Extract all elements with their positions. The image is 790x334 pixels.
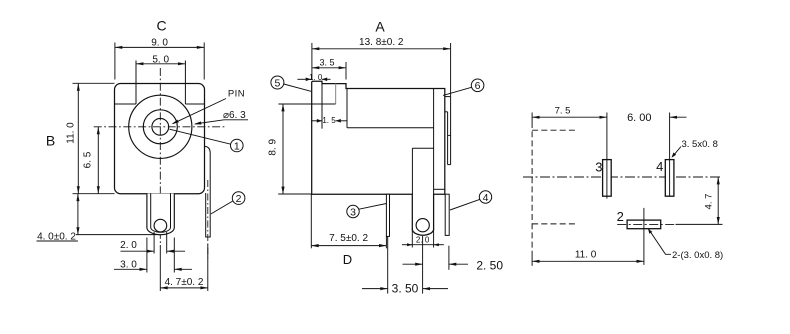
dimension 6.5 vertical — [97, 127, 99, 194]
pcb layout: pad 4 slot — [665, 160, 674, 197]
svg-text:5. 0: 5. 0 — [152, 55, 169, 66]
dimension 3.0 extension lines — [146, 238, 148, 273]
middle view: internal step at rear bottom — [434, 188, 445, 190]
dimension 3.5 — [345, 62, 347, 80]
pcb layout: pad 2 horizontal centerline — [617, 223, 675, 225]
svg-text:B: B — [46, 133, 55, 149]
left view: tab inner wall — [151, 194, 171, 233]
svg-text:2-(3. 0x0. 8): 2-(3. 0x0. 8) — [672, 250, 723, 261]
left view: bottom solder tab outer wall with round end — [147, 194, 174, 235]
dimension 4.7±0.2 — [159, 245, 161, 291]
dimension 13.8±0.2 — [312, 48, 451, 50]
svg-text:2: 2 — [236, 193, 242, 205]
middle view: internal horizontal line — [347, 127, 434, 129]
pcb layout: horizontal centerline — [523, 176, 723, 178]
svg-text:7. 5±0. 2: 7. 5±0. 2 — [329, 233, 368, 244]
pcb layout: extension line through pad 3 — [606, 113, 608, 199]
svg-text:PIN: PIN — [228, 89, 245, 100]
svg-text:A: A — [375, 19, 385, 35]
dimension 3.0 arrows — [114, 268, 147, 270]
left view: internal shelf line right — [185, 103, 204, 105]
svg-text:C: C — [156, 18, 166, 34]
svg-text:13. 8±0. 2: 13. 8±0. 2 — [359, 37, 404, 48]
pcb layout: body hidden outline left edge (dashed) — [531, 113, 533, 123]
dimension 8.9 vertical — [278, 193, 312, 195]
left view: horizontal centerline — [94, 126, 226, 128]
left view: side terminal pin (right edge) — [205, 146, 210, 237]
left view: middle circle — [143, 110, 177, 144]
pcb layout: pad 2 slot — [627, 220, 661, 229]
svg-text:2: 2 — [617, 209, 624, 224]
svg-text:4: 4 — [483, 192, 489, 204]
dimension 2.50 — [448, 246, 450, 270]
svg-text:4. 7: 4. 7 — [704, 194, 715, 210]
svg-text:4. 7±0. 2: 4. 7±0. 2 — [165, 277, 204, 288]
svg-text:6. 00: 6. 00 — [627, 112, 651, 124]
balloon 2 — [232, 192, 245, 205]
dimension 7.5 (pcb) — [532, 116, 607, 118]
svg-text:7. 5: 7. 5 — [555, 105, 571, 116]
svg-text:11. 0: 11. 0 — [65, 122, 76, 144]
balloon 5 — [271, 76, 284, 89]
middle view: lip rear edge — [321, 81, 323, 128]
svg-text:6: 6 — [475, 80, 481, 92]
dimension 6.00 (pcb) — [670, 116, 687, 118]
svg-text:3. 5: 3. 5 — [319, 58, 334, 68]
dimension 2.0 (tab hole) extension lines — [153, 232, 155, 254]
middle view: slot top edge — [412, 147, 433, 149]
pcb layout: pad 2 vertical centerline extension — [643, 208, 645, 265]
dimension 5.0 — [136, 63, 185, 65]
dimension 11.0 (pcb) — [532, 260, 644, 262]
svg-text:8. 9: 8. 9 — [268, 139, 279, 156]
dimension 3.50 — [387, 236, 389, 293]
svg-text:1. 0: 1. 0 — [309, 73, 323, 82]
left view: vertical centerline — [159, 68, 161, 243]
balloon 3 — [347, 205, 359, 217]
svg-text:6. 5: 6. 5 — [83, 151, 94, 168]
svg-text:3: 3 — [350, 206, 356, 218]
dimension 2.0 arrows — [121, 250, 155, 252]
svg-text:1: 1 — [234, 140, 240, 152]
svg-text:5: 5 — [274, 77, 280, 89]
pcb layout: body hidden outline bottom (dashed) — [532, 223, 577, 225]
dimension 11.0 vertical — [77, 83, 79, 193]
left view: internal shelf line left — [115, 103, 137, 105]
tab centerline extension — [422, 236, 424, 294]
middle view: sleeve bottom + 8.9 extension line — [278, 103, 335, 105]
svg-text:1. 5: 1. 5 — [322, 116, 336, 125]
middle view: tab hole — [416, 219, 429, 232]
pcb layout: extension line through pad 4 — [669, 113, 671, 197]
left view: DC jack front-view body (9.0 x 11.0 square with rounded corners) — [115, 84, 205, 194]
svg-text:11. 0: 11. 0 — [575, 250, 597, 261]
left view: top slot left edge + 5.0 extension line — [135, 61, 137, 105]
dimension 2.0 (tab thickness) — [411, 229, 413, 248]
balloon 6 — [471, 79, 484, 92]
dimension 7.5±0.2 — [310, 194, 312, 248]
middle view: pin 4 (rear pin) — [445, 194, 449, 235]
dimension 4.7 (pcb) — [717, 177, 719, 224]
dimension 13.8±0.2 extension lines — [311, 43, 313, 80]
svg-text:4: 4 — [656, 159, 663, 174]
balloon 1 — [231, 139, 244, 152]
middle view: side-view outline with front lip, barrel step, body and bottom tab — [312, 81, 445, 235]
svg-text:3. 50: 3. 50 — [392, 281, 419, 295]
svg-text:2. 0: 2. 0 — [120, 240, 137, 251]
middle view: slot left edge inside body — [411, 148, 413, 194]
middle view: sleeve inner edge (gray) — [335, 84, 337, 104]
dimension 9.0 extension lines — [114, 43, 116, 80]
left view: center pin circle — [152, 118, 169, 135]
svg-text:9. 0: 9. 0 — [151, 38, 168, 49]
middle view: pin 3 (front pin) — [386, 194, 389, 236]
svg-text:3: 3 — [595, 159, 602, 174]
balloon 4 — [479, 191, 491, 203]
middle view: rear internal wall — [433, 89, 435, 195]
dimension 11.0 extension lines — [73, 82, 115, 84]
svg-text:3. 0: 3. 0 — [120, 259, 137, 270]
left view: outer barrel circle (dia 6.3) — [129, 95, 192, 158]
svg-text:2. 50: 2. 50 — [476, 258, 503, 272]
middle view: rear contact plate — [450, 96, 452, 164]
middle view: inner front wall — [346, 89, 348, 128]
svg-text:3. 5x0. 8: 3. 5x0. 8 — [682, 139, 718, 150]
dimension 9.0 — [115, 46, 204, 48]
svg-text:D: D — [343, 252, 352, 267]
left view: side pin centerline — [207, 180, 209, 258]
pcb layout: body hidden outline top (dashed) — [532, 129, 577, 131]
left view: top slot right edge + 5.0 extension line — [184, 61, 186, 105]
left view: tab hole dia 2.0 — [154, 219, 167, 232]
dimension 4.0±0.2 — [76, 234, 160, 236]
pcb layout: pad 3 slot — [603, 160, 612, 197]
